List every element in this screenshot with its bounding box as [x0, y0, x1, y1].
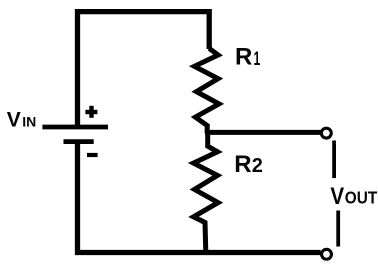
- wire: VOUT+ terminal lead down to label: [332, 141, 336, 179]
- resistor R1: [195, 48, 220, 133]
- terminal node VOUT+ (open circle): [321, 128, 331, 138]
- svg-text:R: R: [234, 151, 251, 178]
- svg-text:IN: IN: [22, 113, 36, 129]
- svg-text:1: 1: [254, 48, 261, 70]
- svg-text:V: V: [330, 182, 344, 209]
- wire: label to VOUT- terminal lead: [336, 211, 340, 247]
- battery VIN positive (long) plate: [42, 125, 108, 130]
- label VOUT: [330, 182, 377, 209]
- label R2: [234, 151, 263, 178]
- label VIN: [7, 108, 36, 131]
- svg-text:V: V: [7, 108, 21, 131]
- wire: R1/R2 junction to VOUT+ terminal (middle rail): [205, 130, 321, 135]
- wire: battery + terminal up left side, across top, down to R1 top: [78, 12, 210, 128]
- battery polarity - sign: [87, 153, 98, 157]
- resistor R2: [194, 131, 219, 252]
- terminal node VOUT- (open circle): [322, 249, 332, 259]
- wire: battery - terminal down left side to bottom rail: [78, 141, 321, 253]
- svg-text:2: 2: [252, 155, 263, 177]
- svg-text:OUT: OUT: [345, 189, 377, 208]
- battery polarity + sign: [85, 106, 97, 118]
- battery VIN negative (short) plate: [64, 139, 94, 144]
- svg-text:R: R: [235, 44, 252, 71]
- label R1: [235, 44, 260, 71]
